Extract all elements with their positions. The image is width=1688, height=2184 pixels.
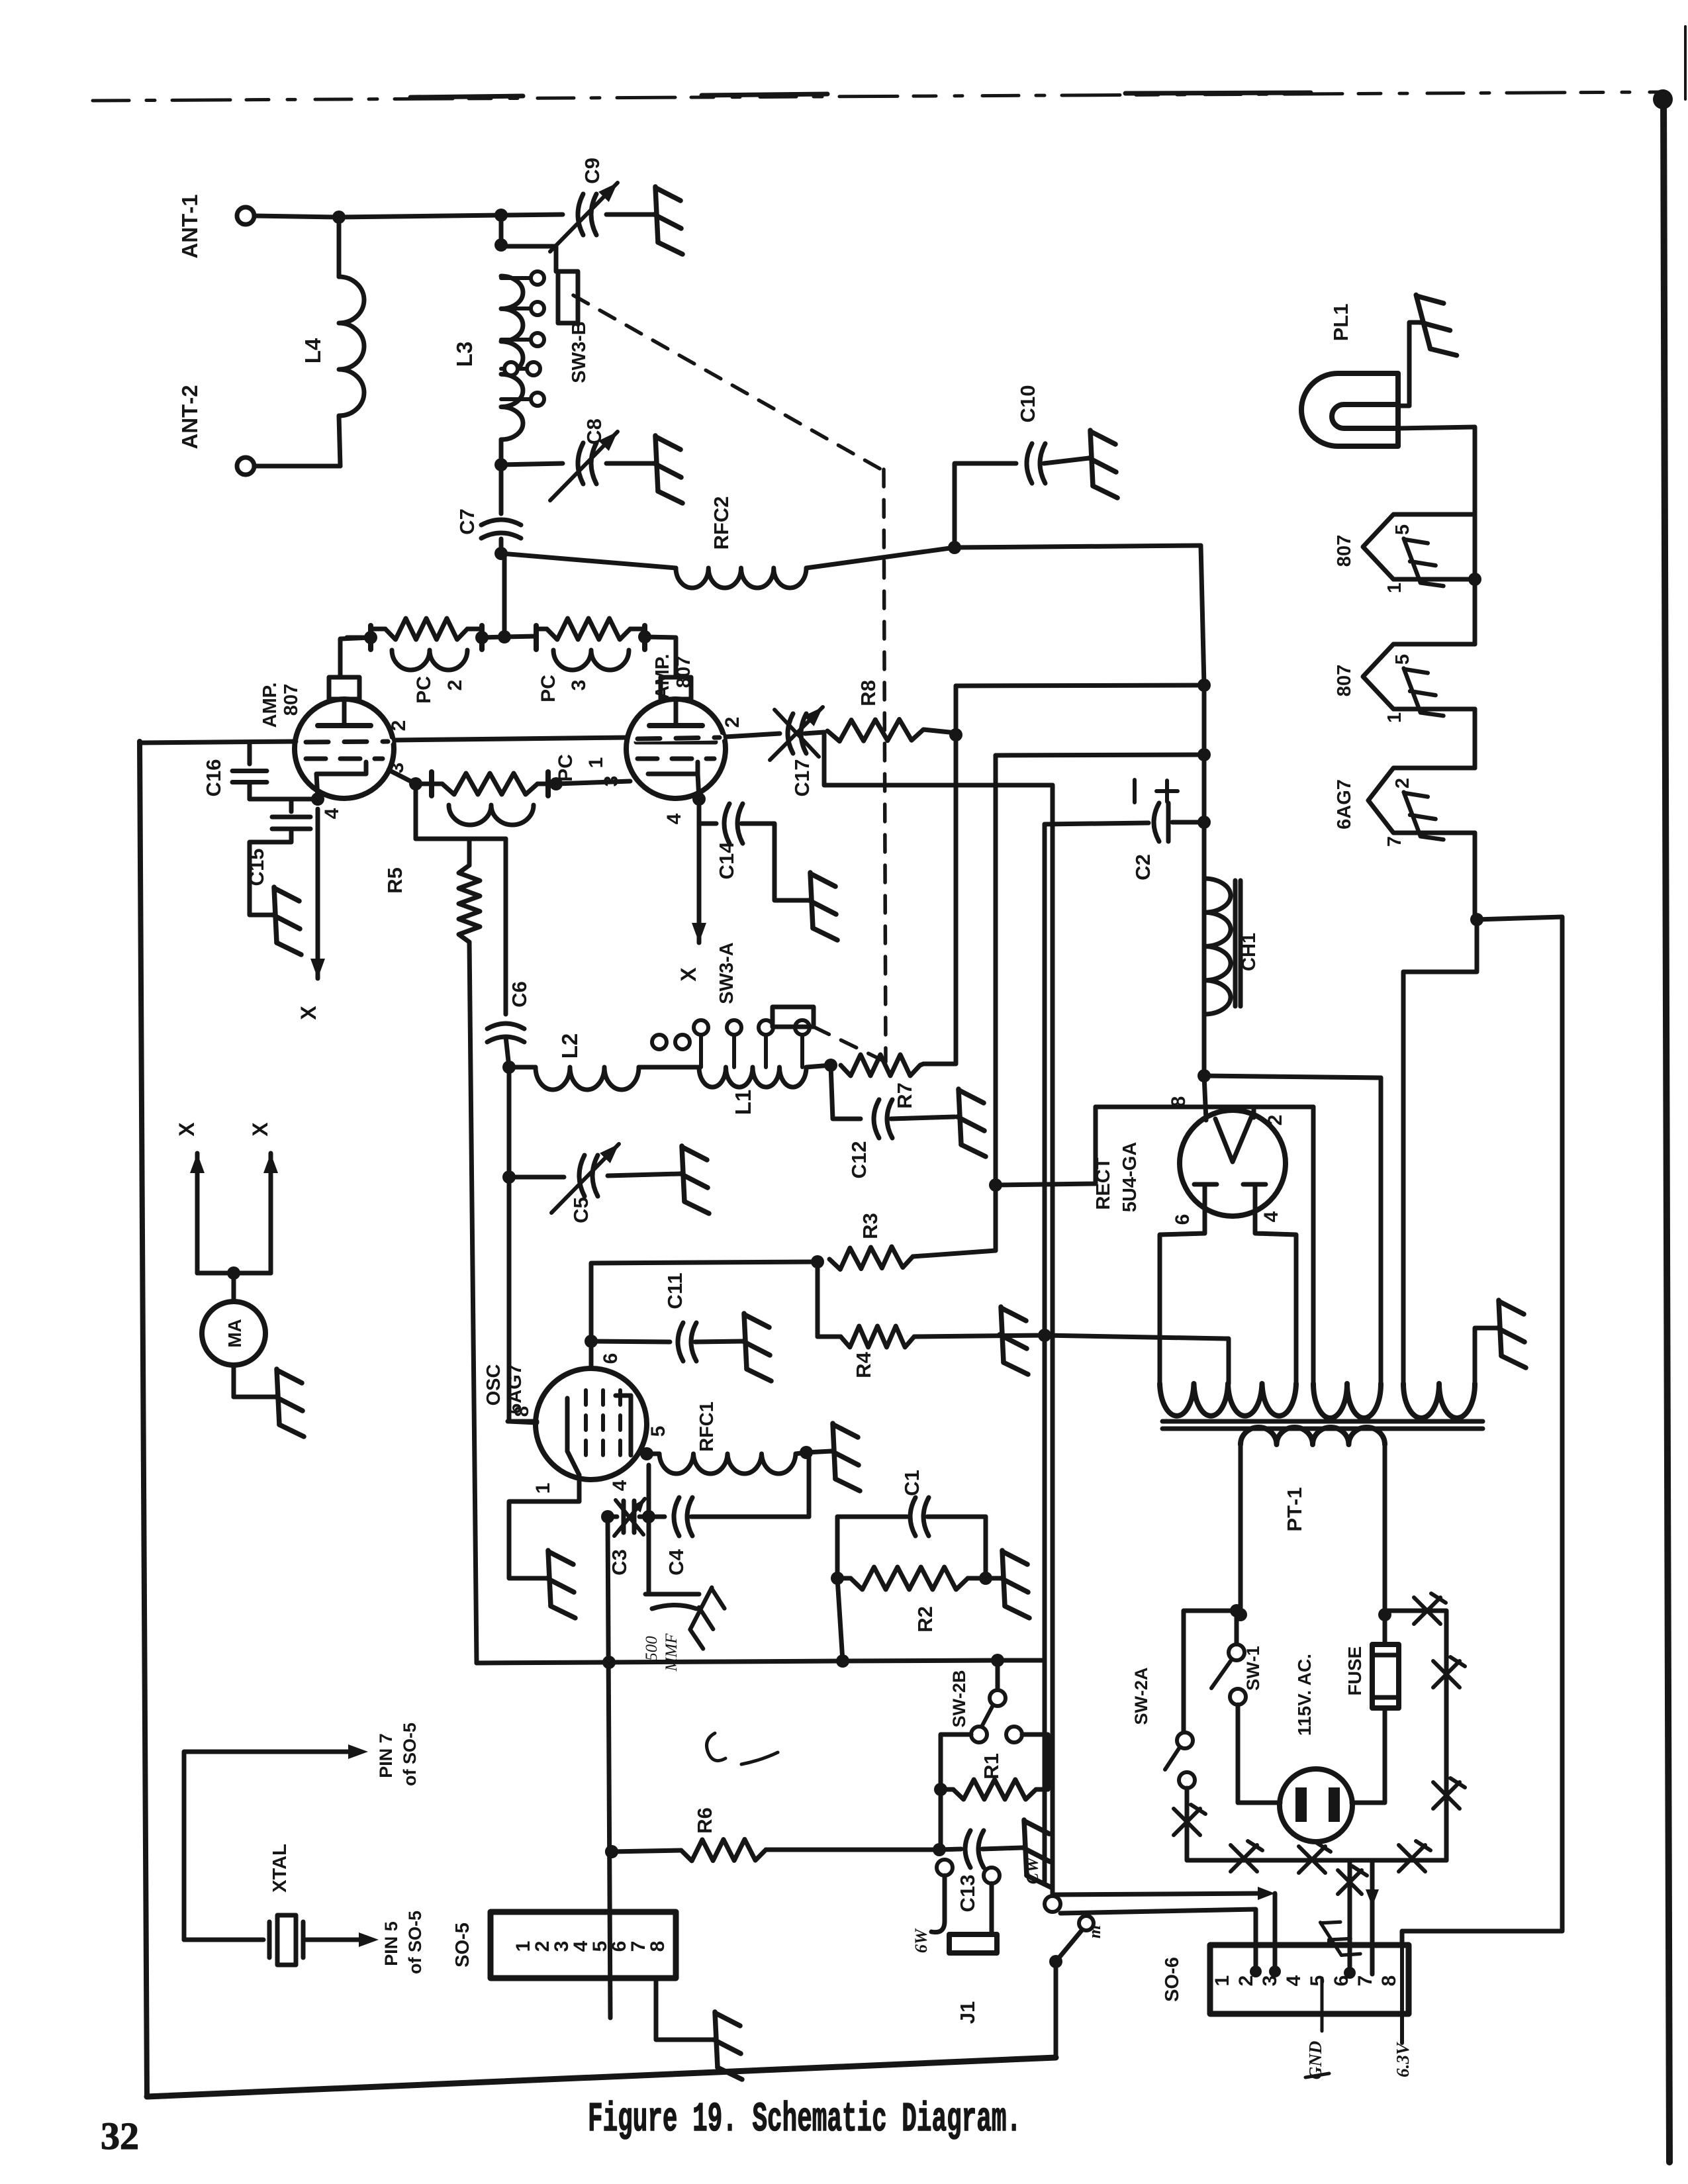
svg-text:C3: C3 — [608, 1549, 631, 1576]
svg-text:1: 1 — [585, 757, 607, 769]
svg-text:PT‑1: PT‑1 — [1283, 1487, 1306, 1531]
svg-text:C13: C13 — [956, 1875, 979, 1913]
svg-text:C12: C12 — [847, 1141, 870, 1179]
svg-text:of SO‑5: of SO‑5 — [405, 1911, 425, 1974]
svg-text:of SO‑5: of SO‑5 — [400, 1723, 420, 1786]
svg-text:ANT‑1: ANT‑1 — [177, 194, 202, 258]
svg-text:X: X — [175, 1122, 199, 1137]
svg-text:RFC1: RFC1 — [696, 1401, 718, 1452]
svg-text:4: 4 — [321, 808, 343, 819]
svg-text:X: X — [677, 967, 700, 982]
svg-text:L1: L1 — [731, 1090, 755, 1116]
svg-text:SW3‑A: SW3‑A — [716, 942, 737, 1004]
svg-text:C4: C4 — [665, 1548, 688, 1575]
svg-text:6W: 6W — [912, 1928, 931, 1953]
svg-text:CH1: CH1 — [1239, 933, 1260, 971]
svg-text:807: 807 — [673, 656, 694, 688]
svg-text:5U4‑GA: 5U4‑GA — [1119, 1142, 1141, 1212]
svg-text:8: 8 — [1378, 1975, 1400, 1987]
svg-text:PC: PC — [555, 754, 577, 782]
svg-text:R3: R3 — [859, 1213, 882, 1239]
svg-text:L4: L4 — [301, 338, 325, 363]
svg-text:C6: C6 — [508, 981, 531, 1008]
svg-text:R5: R5 — [383, 867, 406, 894]
svg-text:2: 2 — [1264, 1115, 1286, 1126]
svg-text:SW‑1: SW‑1 — [1243, 1646, 1263, 1691]
svg-text:SW‑2A: SW‑2A — [1131, 1668, 1151, 1725]
svg-text:ANT‑2: ANT‑2 — [177, 385, 202, 449]
svg-text:SW3‑B: SW3‑B — [569, 321, 590, 383]
svg-text:4: 4 — [609, 1480, 631, 1491]
svg-text:C9: C9 — [581, 158, 604, 184]
svg-text:R1: R1 — [980, 1753, 1003, 1780]
svg-text:C15: C15 — [245, 849, 268, 886]
svg-text:2: 2 — [722, 717, 743, 728]
svg-text:X: X — [248, 1122, 272, 1137]
svg-text:SO‑6: SO‑6 — [1162, 1957, 1183, 2002]
svg-text:PC: PC — [413, 676, 435, 704]
svg-text:4: 4 — [663, 813, 685, 824]
svg-text:2: 2 — [1392, 778, 1413, 788]
svg-text:1: 1 — [1211, 1975, 1233, 1987]
svg-text:PC: PC — [538, 675, 559, 702]
svg-text:CW: CW — [1023, 1856, 1042, 1884]
svg-text:Figure 19. Schematic Diagram.: Figure 19. Schematic Diagram. — [588, 2096, 1021, 2143]
svg-text:C10: C10 — [1016, 385, 1039, 423]
svg-text:C1: C1 — [900, 1470, 923, 1496]
svg-text:4: 4 — [1283, 1975, 1305, 1986]
svg-text:3: 3 — [568, 680, 590, 691]
svg-text:7: 7 — [1354, 1975, 1376, 1987]
svg-text:807: 807 — [1334, 665, 1355, 696]
svg-text:4: 4 — [1260, 1211, 1282, 1222]
svg-text:3: 3 — [1259, 1975, 1281, 1987]
svg-text:C17: C17 — [790, 759, 814, 797]
svg-text:RFC2: RFC2 — [710, 497, 733, 550]
svg-text:PL1: PL1 — [1329, 304, 1352, 342]
svg-text:C16: C16 — [202, 759, 225, 797]
svg-text:807: 807 — [281, 684, 302, 716]
svg-text:32: 32 — [101, 2114, 139, 2158]
svg-text:5: 5 — [1307, 1975, 1329, 1987]
svg-text:8: 8 — [647, 1941, 669, 1952]
svg-text:C2: C2 — [1131, 854, 1154, 880]
svg-text:5: 5 — [647, 1426, 669, 1437]
svg-text:XTAL: XTAL — [269, 1844, 291, 1893]
svg-text:J1: J1 — [956, 2001, 979, 2024]
svg-text:1: 1 — [1384, 583, 1405, 593]
svg-text:SW‑2B: SW‑2B — [949, 1670, 969, 1728]
svg-text:MMF: MMF — [663, 1633, 680, 1672]
svg-text:C5: C5 — [569, 1197, 592, 1223]
svg-text:7: 7 — [1384, 836, 1405, 847]
svg-text:6AG7: 6AG7 — [1334, 779, 1355, 830]
svg-text:C11: C11 — [663, 1272, 686, 1309]
svg-text:6: 6 — [600, 1353, 622, 1364]
svg-text:FUSE: FUSE — [1344, 1646, 1365, 1696]
svg-text:C7: C7 — [455, 508, 479, 535]
svg-text:PIN 7: PIN 7 — [376, 1733, 396, 1778]
svg-text:m: m — [1085, 1925, 1104, 1938]
svg-text:R8: R8 — [857, 680, 880, 706]
svg-text:MA: MA — [224, 1319, 245, 1348]
svg-text:R6: R6 — [693, 1807, 716, 1834]
svg-text:AMP.: AMP. — [259, 683, 281, 728]
svg-text:1: 1 — [1384, 712, 1405, 723]
svg-text:807: 807 — [1334, 535, 1355, 567]
svg-text:X: X — [297, 1006, 320, 1020]
svg-text:C8: C8 — [583, 418, 606, 445]
svg-text:L3: L3 — [452, 342, 477, 367]
svg-text:PIN 5: PIN 5 — [381, 1921, 401, 1966]
svg-text:1: 1 — [532, 1483, 554, 1494]
svg-text:500: 500 — [643, 1636, 661, 1661]
svg-text:6.3V: 6.3V — [1393, 2042, 1413, 2077]
svg-text:5: 5 — [1392, 524, 1413, 535]
svg-text:AMP.: AMP. — [652, 654, 673, 700]
svg-text:115V. AC.: 115V. AC. — [1294, 1654, 1315, 1736]
svg-text:R4: R4 — [852, 1351, 875, 1378]
svg-text:L2: L2 — [557, 1033, 582, 1059]
svg-text:6: 6 — [1331, 1975, 1352, 1987]
svg-text:OSC: OSC — [483, 1364, 504, 1406]
svg-text:R7: R7 — [893, 1082, 916, 1109]
svg-text:2: 2 — [388, 720, 410, 732]
svg-text:SO‑5: SO‑5 — [452, 1923, 473, 1968]
svg-text:6: 6 — [1172, 1214, 1194, 1225]
svg-text:2: 2 — [444, 680, 466, 691]
svg-text:C14: C14 — [715, 841, 738, 880]
svg-text:2: 2 — [1235, 1975, 1257, 1987]
svg-text:5: 5 — [1392, 654, 1413, 665]
svg-text:6AG7: 6AG7 — [504, 1364, 526, 1414]
svg-text:R2: R2 — [914, 1606, 937, 1633]
